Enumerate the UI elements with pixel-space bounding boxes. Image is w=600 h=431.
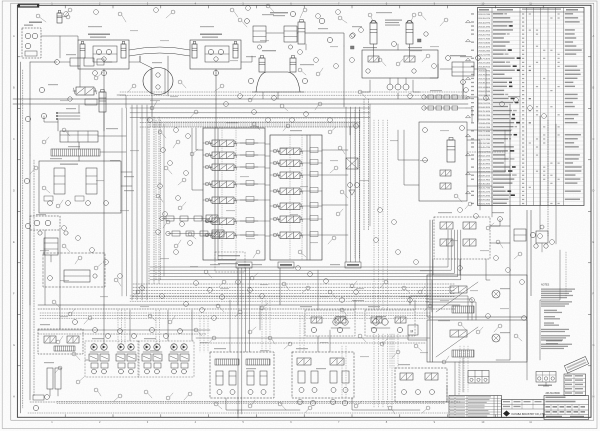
inner connection wires manifold [265, 143, 270, 145]
pump pair top of bottom row 2 [373, 319, 379, 325]
hose bundle [58, 112, 80, 114]
extra wire links 2 [41, 36, 78, 40]
bridge wires between M1 M2 [129, 47, 190, 50]
central manifold right block [270, 135, 322, 260]
revision table [449, 396, 502, 418]
pressure reducing assembly [60, 131, 98, 142]
extra top bus ladder [120, 91, 468, 93]
port circles left margin [25, 116, 30, 121]
swivel joint [143, 68, 173, 95]
left relay chain 1 [166, 216, 174, 221]
manifold internal row wires [203, 142, 212, 144]
pilot valve box left [39, 161, 121, 213]
M box [408, 325, 418, 335]
left relay chain 2 [172, 231, 180, 236]
return filter chain [70, 58, 80, 66]
pump circles under manifold [387, 84, 393, 90]
port circles above motors [73, 320, 78, 325]
standpipe assembly [47, 368, 53, 389]
spec label box [215, 252, 245, 272]
parts list table [478, 8, 585, 206]
scattered port circles [64, 12, 69, 17]
motor unit 2 [118, 344, 124, 350]
bottom risers dotted [199, 316, 201, 352]
left vertical rails x20 [20, 62, 22, 413]
motor unit 4 [171, 344, 177, 350]
main bus nest right verticals [345, 107, 347, 262]
bus bend down to swing modules [426, 296, 468, 320]
pump pair top of bottom row 1 [333, 319, 339, 325]
motor unit 1 [91, 344, 97, 350]
right mid component small valve [536, 231, 548, 243]
motor unit 3 [144, 344, 150, 350]
accumulator manifold block [362, 50, 438, 78]
approval stamp table [564, 374, 586, 396]
center joint manifold [256, 72, 300, 92]
title block main [502, 400, 545, 418]
relay row 1 [428, 95, 434, 99]
central vertical trunk [237, 268, 239, 352]
pilot station S2 [365, 310, 415, 336]
travel valve module M2 [190, 40, 241, 69]
valve bank B3 [395, 368, 447, 402]
frame tick marks [64, 5, 66, 8]
small breather cylinder top-left [57, 13, 62, 23]
main bus nest top [13, 98, 468, 100]
valve bank B2 [292, 352, 354, 398]
table left tick marks [466, 20, 471, 23]
more scattered text [150, 100, 160, 101]
small 3-cell box above revision table [468, 371, 489, 384]
module bus left rail [429, 220, 431, 362]
lower-left valve stack [44, 238, 58, 255]
vertical filter cylinder [298, 22, 305, 44]
extra right bus verticals [354, 110, 356, 258]
wires into title area [454, 362, 456, 395]
top-left title bar [18, 4, 39, 7]
left vertical cylinder [99, 92, 106, 112]
balloon labels with leaders [36, 14, 40, 18]
pilot station S1 [305, 310, 355, 336]
accumulator A2 [406, 23, 413, 44]
long horizontal rails lower [38, 304, 460, 306]
fig label above title [546, 340, 562, 341]
title block right grid [544, 396, 589, 420]
solenoid valve left [76, 87, 94, 95]
accumulator A1 [370, 23, 377, 44]
swing motor module lower [427, 320, 527, 362]
scan noise overlay [0, 0, 1, 1]
mid right block with cylinder [419, 122, 467, 201]
bottom dotted rails [57, 401, 447, 403]
travel valve module M1 [78, 40, 129, 69]
bottom long rails [30, 401, 460, 403]
solenoid valve group top-center [253, 26, 266, 42]
lower dotted rails [40, 312, 430, 314]
scattered tiny text labels [88, 26, 102, 27]
four solenoid valve cluster [434, 217, 490, 259]
misc wire links [103, 96, 105, 305]
lower bus fan [150, 266, 430, 268]
central manifold left block [203, 128, 265, 260]
lower-left item box [43, 253, 105, 287]
pilot pump unit [22, 28, 41, 58]
inspection box with circles [536, 372, 556, 383]
swing motor module upper [427, 275, 527, 317]
block to right wires [467, 129, 512, 131]
relief valve right [514, 229, 526, 241]
slanted stamp [564, 356, 588, 373]
relay row 2 [428, 106, 434, 110]
drain item [33, 395, 44, 400]
manifold inner verticals [221, 128, 223, 260]
extra left bus verticals [121, 108, 123, 296]
maker logo diamond [503, 411, 510, 417]
hatched manifold bar left [51, 149, 100, 156]
wire risers bottom-left [117, 310, 119, 344]
wires table to bottom right [540, 250, 560, 360]
dotted verticals right-center [373, 120, 375, 310]
bus bend right side [430, 230, 448, 267]
manifold bottom labels [236, 262, 252, 268]
x-marked box right of manifold [346, 158, 358, 169]
main bus nest left verticals [131, 105, 133, 300]
bottom-left dual valve group [38, 329, 83, 354]
valve bank B1 [210, 352, 274, 398]
shuttle valve top-right [452, 62, 474, 76]
motor group outline [85, 341, 139, 377]
small pump box lower-left [30, 216, 60, 230]
right side vertical feeders [462, 62, 464, 99]
right vertical wires near notes [526, 210, 528, 300]
